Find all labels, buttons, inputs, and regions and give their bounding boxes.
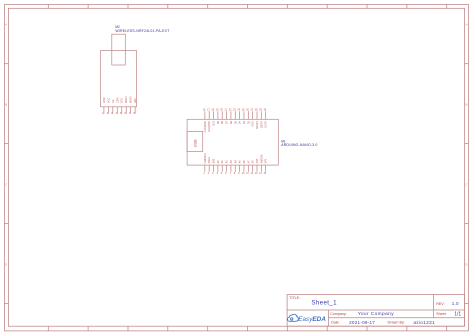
svg-text:D1/TX: D1/TX	[265, 121, 268, 128]
svg-text:GND: GND	[103, 97, 106, 103]
svg-text:D11/MOSI: D11/MOSI	[208, 121, 211, 132]
svg-text:3V3: 3V3	[213, 158, 216, 163]
svg-text:B: B	[5, 103, 7, 107]
svg-text:A4/SDA: A4/SDA	[260, 154, 263, 163]
svg-text:RST: RST	[256, 158, 259, 163]
svg-text:azio1231: azio1231	[413, 320, 435, 326]
svg-text:A: A	[5, 23, 7, 27]
svg-text:Sheet_1: Sheet_1	[311, 299, 337, 306]
svg-text:B: B	[465, 103, 467, 107]
svg-text:D12/MISO: D12/MISO	[204, 121, 207, 132]
svg-text:WIRELESS-NRF24L01-PA-EXT: WIRELESS-NRF24L01-PA-EXT	[115, 29, 170, 33]
svg-text:1/1: 1/1	[454, 312, 461, 318]
svg-text:Sheet:: Sheet:	[436, 312, 446, 316]
svg-text:Drawn By:: Drawn By:	[388, 321, 406, 325]
svg-text:SCK: SCK	[121, 98, 124, 103]
svg-text:A: A	[465, 23, 467, 27]
svg-text:D10: D10	[213, 121, 216, 126]
svg-text:CE: CE	[112, 99, 115, 103]
svg-text:2021-09-17: 2021-09-17	[349, 320, 375, 325]
svg-text:TITLE:: TITLE:	[289, 296, 300, 300]
svg-text:USB: USB	[194, 139, 198, 147]
svg-text:Your Company: Your Company	[358, 311, 395, 317]
svg-text:REV:: REV:	[436, 302, 444, 306]
svg-text:RESET: RESET	[256, 121, 259, 130]
svg-text:D0/RX: D0/RX	[260, 121, 263, 128]
svg-text:AREF: AREF	[208, 156, 211, 163]
svg-text:ARDUINO-NANO-3.0: ARDUINO-NANO-3.0	[281, 143, 317, 147]
svg-text:EasyEDA: EasyEDA	[298, 316, 326, 323]
svg-text:IRQ: IRQ	[134, 99, 137, 104]
svg-text:CSN: CSN	[116, 98, 119, 103]
svg-text:MOSI: MOSI	[125, 96, 128, 103]
svg-text:5V: 5V	[252, 160, 255, 163]
svg-text:GND: GND	[252, 121, 255, 127]
svg-text:1.0: 1.0	[452, 301, 459, 306]
svg-text:MISO: MISO	[130, 97, 133, 103]
svg-text:VCC: VCC	[107, 98, 110, 103]
svg-text:D13/SCK: D13/SCK	[204, 153, 207, 164]
svg-text:Company:: Company:	[330, 312, 346, 316]
svg-text:Date:: Date:	[331, 320, 340, 324]
svg-text:VIN: VIN	[265, 159, 268, 163]
